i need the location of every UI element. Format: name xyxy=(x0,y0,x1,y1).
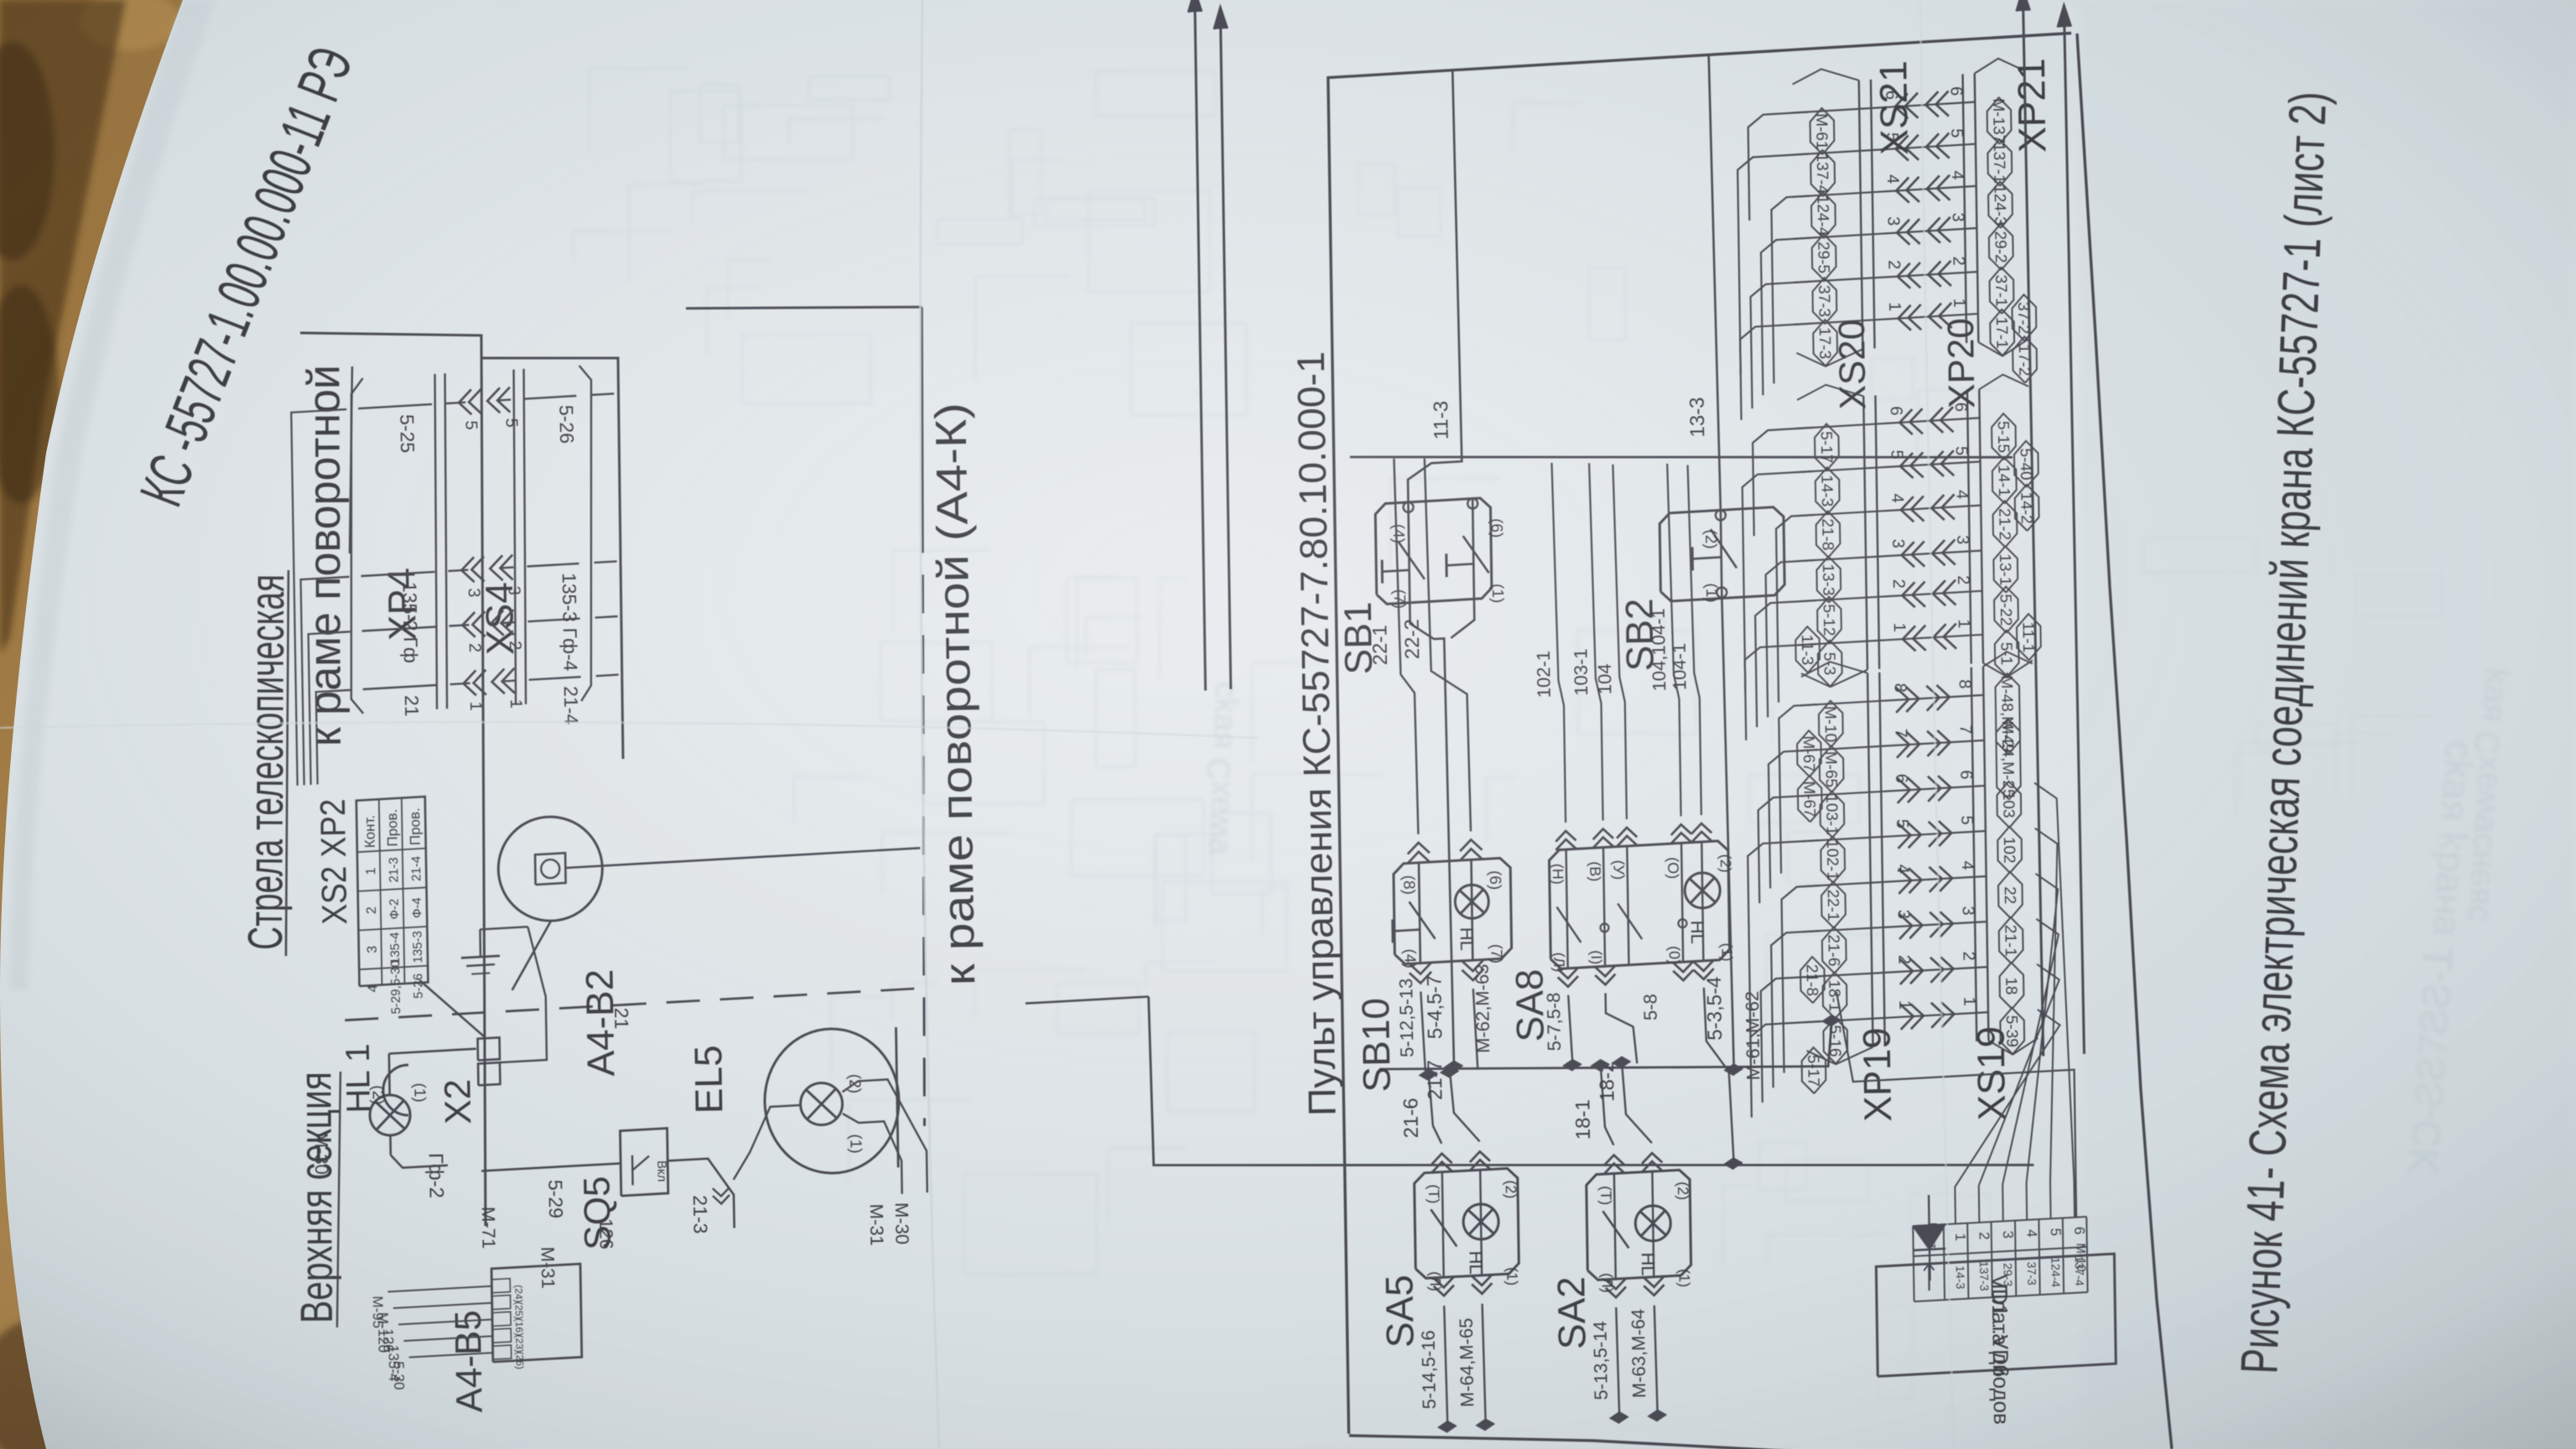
SB10 wires right labels 22-1 22-2 xyxy=(1394,459,1418,834)
underline of heading xyxy=(286,570,288,956)
pult box left edge xyxy=(1349,1436,2163,1449)
SB1 terminal circles xyxy=(1404,502,1414,512)
XS20/XP20 top labels pin 2 xyxy=(1817,597,1841,643)
toggle switch with lamp SA2 xyxy=(1587,1170,1691,1280)
SB10 chevrons left xyxy=(1410,972,1431,984)
wire 21-3 from EL5 up xyxy=(734,1105,801,1180)
XS21/XP21 pin 1 wire xyxy=(1794,314,1978,325)
ground symbol at X2 wire xyxy=(480,927,528,929)
SA8 lamp HL xyxy=(1701,842,1703,961)
XS20/XP20 shell ends xyxy=(1801,670,1867,688)
XP19/XS19 pin 6 chevrons xyxy=(1908,777,1920,802)
SA2 chevrons xyxy=(1604,1156,1624,1166)
SB2 wire left with label 5-3,5-4 xyxy=(1722,598,1733,1069)
A4-B2 center square xyxy=(535,853,566,885)
XS21/XP21 pin 5 wire xyxy=(1792,144,1976,155)
XS20/XP20 bottom labels pin 5 xyxy=(1992,457,2017,503)
XP19/XS19 top labels pin 5 xyxy=(1820,837,1845,883)
SA8 contact wire (У) xyxy=(1627,846,1628,965)
SA5 switch wire xyxy=(1442,1172,1444,1278)
bundle from XP4 to table xyxy=(316,691,328,784)
XS21/XP21 bottom labels pin 3 xyxy=(1989,224,2013,270)
push-button switch SB1 xyxy=(1375,498,1492,604)
XS4 rails xyxy=(514,370,517,705)
XP19/XS19 pin 8 wire xyxy=(1800,695,1984,705)
XS20/XP20 pin 1 chevrons xyxy=(1903,626,1916,651)
XS20/XP20 feeder wire pin 1 xyxy=(1745,644,1816,740)
XS20/XP20 feeder wire pin 5 xyxy=(1742,471,1814,692)
SB1 contact wire 1 xyxy=(1408,502,1410,603)
XP19/XS19 top labels pin 6 xyxy=(1820,792,1845,838)
lamp HL1 xyxy=(370,1095,410,1135)
SA5 lamp xyxy=(1463,1204,1498,1239)
underline of k rame xyxy=(350,366,352,553)
XP19/XS19 feeder wire pin 2 xyxy=(1761,976,1821,1103)
XP19/XS19 feeder wire pin 5 xyxy=(1748,840,1819,1061)
bus wire 2 (main vertical) xyxy=(1379,1021,1831,1069)
XS20/XP20 feeder wire pin 3 xyxy=(1766,560,1815,717)
SA8 right wire bundle labels 102-1 103-1 104 104,104-1 104-1 xyxy=(1552,463,1566,823)
XS21/XP21 pin 3 chevrons xyxy=(1897,220,1909,245)
SA8 switch blades xyxy=(1557,907,1581,943)
XP19/XS19 bottom labels pin 5 xyxy=(1997,827,2022,873)
XP19/XS19 pin 7 wire xyxy=(1800,740,1984,750)
XP19/XS19 feeder wire pin 4 xyxy=(1782,885,1820,1072)
XS21/XP21 bottom labels pin 2 xyxy=(1990,267,2014,314)
SA2 bottom wires to box edge xyxy=(1616,1307,1619,1420)
XS21/XP21 top labels pin 5 xyxy=(1810,150,1835,196)
XP19/XS19 pin 4 chevrons xyxy=(1909,868,1922,893)
wire down from XS4 xyxy=(596,675,619,677)
boundary dashed continuation xyxy=(922,514,924,1125)
XS20/XP20 bottom labels pin 2 xyxy=(1994,587,2018,633)
XS20/XP20 top labels pin 5 xyxy=(1815,468,1840,514)
wire SQ5 down xyxy=(667,1159,735,1228)
XS21/XP21 bottom labels pin 6 xyxy=(1987,97,2012,143)
SA8 left wires labels 5-7,5-8 / 5-8 / M-61,M-62 xyxy=(1568,995,1572,1066)
SA5 switch blade xyxy=(1431,1209,1457,1246)
A4-B5 wires up with labels xyxy=(409,1353,493,1357)
SB10 contact wire 1 xyxy=(1419,863,1420,963)
XS20/XP20 pin 3 chevrons xyxy=(1902,542,1914,567)
XS20/XP20 pin 4 wire xyxy=(1797,506,1981,517)
XP19/XS19 pin 5 wire xyxy=(1802,831,1986,841)
XS21/XP21 pin 6 chevrons xyxy=(1895,93,1908,118)
SB1 wire left with label 5-4,5-7 xyxy=(1410,603,1454,1067)
XS21/XP21 top labels pin 1 xyxy=(1813,319,1837,366)
SA5 lamp wire xyxy=(1480,1170,1482,1275)
wire up from XP4 xyxy=(323,409,346,411)
wire up from XP4 xyxy=(326,577,350,579)
arrow on wire 21-3 xyxy=(713,1195,730,1204)
XS21/XP21 pin 1 chevrons xyxy=(1898,305,1911,330)
XP4/XS4 pin 1 wires and chevrons xyxy=(363,685,437,689)
toggle switch with lamp SA5 xyxy=(1415,1168,1519,1278)
wire down from XS4 xyxy=(591,393,614,395)
dashed boundary Верхняя секция xyxy=(345,989,917,1021)
boundary to rotating frame A4-K vertical xyxy=(686,307,922,309)
XS20/XP20 bottom labels pin 6 xyxy=(1992,413,2016,460)
XS21/XP21 feeder wire pin 2 xyxy=(1751,282,1811,408)
junction SB1-bus2 xyxy=(1446,1062,1463,1072)
boundary to rotating frame A4-K horizontal solid xyxy=(921,307,924,514)
diode board table xyxy=(1913,1226,1914,1301)
connector group XS20/XP20 rails xyxy=(1863,396,1867,669)
SA5 chevrons xyxy=(1432,1154,1452,1165)
unit A4-B5 box xyxy=(491,1264,582,1362)
XS21/XP21 top labels pin 3 xyxy=(1812,234,1836,280)
XP19/XS19 pin 8 chevrons xyxy=(1906,687,1919,712)
XS20/XP20 pin 5 chevrons xyxy=(1900,453,1914,478)
ghost mirrored caption text from verso xyxy=(1199,667,2511,1176)
EL5 flat face line xyxy=(896,1027,899,1167)
XS20/XP20 top labels pin 6 xyxy=(1815,424,1839,470)
XP19/XS19 feeder wire pin 8 xyxy=(1779,704,1816,874)
wires from XS19 into diode table xyxy=(1955,1010,2059,1224)
XP19/XS19 bottom labels pin 1 xyxy=(2000,1008,2024,1054)
SA2 lamp xyxy=(1635,1206,1670,1241)
XP19/XS19 feeder wire pin 3 xyxy=(1771,931,1820,1088)
SA5 top wires to bus xyxy=(1429,1075,1441,1144)
wire table to X2 diagonal xyxy=(419,980,484,1036)
SA2 lamp wire xyxy=(1652,1171,1654,1277)
XP4/XS4 ladder shells xyxy=(351,378,363,714)
XS20/XP20 pin 6 wire xyxy=(1796,418,1980,428)
wire M-10 to diode table xyxy=(1836,992,2076,1218)
gap wires to rotating frame with arrows xyxy=(1195,0,1206,691)
XS21/XP21 top labels pin 4 xyxy=(1811,192,1836,238)
SA8 contact wire (В) xyxy=(1603,848,1605,967)
XP19/XS19 pin 3 wire xyxy=(1804,922,1987,932)
XS20/XP20 pin 6 chevrons xyxy=(1899,409,1912,434)
pult box bottom edge xyxy=(2077,34,2172,1449)
XP19/XS19 pin 1 wire xyxy=(1805,1012,1988,1022)
SA8 contact wire (О) xyxy=(1681,843,1683,962)
EL5 lamp xyxy=(801,1083,843,1125)
XP19/XS19 pin 2 chevrons xyxy=(1910,958,1923,984)
push-button with lamp SB10 xyxy=(1394,858,1512,963)
SB1 push button symbol xyxy=(1382,570,1409,572)
wire up from XP4 xyxy=(328,690,351,692)
bus wire 3 (from boom section) xyxy=(1149,997,2034,1166)
bus wire 1 (right vertical) xyxy=(1350,456,2012,459)
XP19/XS19 pin 3 chevrons xyxy=(1909,913,1923,938)
pult control box border xyxy=(1328,34,2071,1434)
XS21/XP21 bottom labels pin 4 xyxy=(1988,182,2012,228)
SB10 button symbol xyxy=(1393,930,1420,932)
XS20/XP20 bottom labels pin 4 xyxy=(1993,501,2018,547)
XP19/XS19 pin 1 chevrons xyxy=(1911,1004,1924,1029)
XS21/XP21 bottom labels pin 5 xyxy=(1987,140,2012,186)
XP19/XS19 feeder wire pin 7 xyxy=(1768,750,1818,888)
XS21/XP21 pin 4 chevrons xyxy=(1896,178,1909,203)
ghost bleed-through of reverse page xyxy=(574,69,2442,1399)
diode board VD1..VD6 outline xyxy=(1876,1254,2116,1376)
XS21/XP21 top labels pin 6 xyxy=(1810,108,1835,154)
XS21/XP21 top labels pin 2 xyxy=(1813,278,1837,324)
XS21/XP21 pin 2 chevrons xyxy=(1898,263,1911,288)
XP19/XS19 pin 5 chevrons xyxy=(1908,823,1920,848)
XS20/XP20 feeder wire pin 6 xyxy=(1753,428,1813,536)
connector group XS21/XP21 rails xyxy=(1859,80,1863,350)
junction SA8-bus3 xyxy=(1725,1158,1742,1169)
SB2 wire right with label 13-3 xyxy=(1709,55,1721,510)
XP19/XS19 bottom labels pin 8 xyxy=(1996,673,2020,754)
XP19/XS19 pin 6 wire xyxy=(1801,786,1985,796)
junction SB2-bus2 xyxy=(1725,1064,1742,1075)
wire up from XP4 xyxy=(327,631,351,633)
XS20/XP20 pin 2 wire xyxy=(1799,591,1982,602)
wire down from XS4 xyxy=(595,561,617,563)
HL1 reflector arc xyxy=(383,1065,408,1115)
XS20/XP20 feeder wire pin 4 xyxy=(1776,515,1814,703)
XS21/XP21 pin 4 wire xyxy=(1793,186,1976,197)
XP19/XS19 top labels pin 8 xyxy=(1819,701,1843,747)
XS21/XP21 pin 6 wire xyxy=(1791,102,1975,113)
XP19/XS19 bottom labels pin 4 xyxy=(1998,872,2023,918)
SB10 wires left labels 5-12,5-13 M-62,M-63 xyxy=(1420,992,1426,1072)
connector X2 squares xyxy=(478,1062,500,1085)
junction bus2 ladder xyxy=(1823,1015,1841,1026)
SB1 contact wire 2 xyxy=(1472,499,1474,600)
SB1 wire right with label 11-3 xyxy=(1408,70,1462,502)
SA5 bottom wires to box edge xyxy=(1444,1306,1447,1428)
XS21/XP21 bottom labels pin 1 xyxy=(1990,309,2014,356)
XP19/XS19 feeder wire pin 1 xyxy=(1751,1021,1822,1118)
XP19/XS19 pin 7 chevrons xyxy=(1907,732,1919,757)
push-button switch SB2 xyxy=(1659,507,1784,601)
SA2 switch blade xyxy=(1602,1211,1628,1248)
XS21/XP21 pin 5 chevrons xyxy=(1896,136,1909,161)
XP19/XS19 top labels pin 4 xyxy=(1821,882,1846,928)
A4-B5 terminal row xyxy=(493,1345,512,1359)
XP19/XS19 pin 2 wire xyxy=(1804,967,1987,977)
left section frame and divider xyxy=(300,333,486,1226)
XP4/XS4 pin 5 wires and chevrons xyxy=(358,404,432,408)
XS20/XP20 pin 2 chevrons xyxy=(1902,582,1914,607)
wire SQ5 up with label 5-29 xyxy=(481,1163,621,1171)
SA2 top wires to bus xyxy=(1601,1066,1614,1145)
SA8 contact wire (Н) xyxy=(1566,849,1568,969)
XS21/XP21 shell ends xyxy=(1796,349,1862,366)
XS21/XP21 feeder wire pin 6 xyxy=(1748,112,1809,221)
diode table arrow cell xyxy=(1928,1265,1930,1291)
XP19/XS19 shell ends xyxy=(1807,1047,1873,1064)
exit wire 2 to frame with arrow xyxy=(2064,6,2084,1054)
XS20/XP20 pin 4 chevrons xyxy=(1901,496,1914,522)
XS21/XP21 feeder wire pin 5 xyxy=(1737,154,1809,375)
wires HL1 xyxy=(388,1054,391,1096)
XP19/XS19 bottom labels pin 3 xyxy=(1999,917,2023,963)
XS21/XP21 pin 3 wire xyxy=(1793,228,1976,239)
XS20/XP20 top labels pin 1 xyxy=(1818,641,1842,687)
SB10 lamp HL xyxy=(1472,860,1473,960)
connector table XS2/XP2 xyxy=(356,797,428,986)
limit switch SQ5 box xyxy=(621,1129,668,1197)
SB2 contact wire xyxy=(1721,510,1722,598)
XS20/XP20 top labels pin 3 xyxy=(1817,557,1841,603)
SB10 chevrons right xyxy=(1408,843,1430,854)
XS21/XP21 pin 2 wire xyxy=(1794,272,1977,283)
XS20/XP20 pin 1 wire xyxy=(1800,635,1983,645)
underline Верхняя секция xyxy=(337,1072,340,1327)
switch unit SA8 xyxy=(1550,841,1730,969)
SB2 push button symbol xyxy=(1692,557,1721,558)
XS20/XP20 pin 3 wire xyxy=(1798,551,1981,562)
EL5 wires down xyxy=(843,1114,902,1194)
SA2 switch wire xyxy=(1614,1174,1616,1280)
XP19/XS19 top labels pin 7 xyxy=(1820,746,1844,792)
diode symbol VD xyxy=(1929,1195,1930,1280)
XS20/XP20 bottom labels pin 1 xyxy=(1995,631,2019,677)
XS20/XP20 feeder wire pin 2 xyxy=(1755,600,1815,727)
wire from A4-B2 down to boundary xyxy=(565,848,920,868)
paper crease lines xyxy=(921,0,940,1449)
XS21/XP21 feeder wire pin 3 xyxy=(1761,238,1810,396)
wire down from XS4 xyxy=(595,616,618,618)
connector group XP19/XS19 rails xyxy=(1867,673,1873,1047)
XP4/XS4 pin 2 wires and chevrons xyxy=(362,627,436,631)
XP19/XS19 top labels pin 2 xyxy=(1823,973,1847,1019)
wire from A4-B2 left xyxy=(512,921,552,990)
XS20/XP20 bottom labels pin 3 xyxy=(1993,547,2018,593)
XS20/XP20 top labels pin 4 xyxy=(1816,512,1841,558)
XP19/XS19 pin 4 wire xyxy=(1803,876,1987,886)
XP19/XS19 bottom labels pin 2 xyxy=(2000,963,2024,1009)
XP19/XS19 bottom labels pin 6 xyxy=(1997,782,2022,828)
XP4 rails xyxy=(435,374,438,709)
XP4/XS4 pin 3 wires and chevrons xyxy=(361,572,435,576)
divider bracket around XP4 ladder xyxy=(482,358,623,759)
SB2 terminal circles xyxy=(1716,587,1727,597)
XS21/XP21 feeder wire pin 1 xyxy=(1740,324,1811,420)
XP19/XS19 bottom labels pin 7 xyxy=(1996,719,2020,799)
exit wire 1 to frame with arrow xyxy=(2023,0,2044,1057)
XP19/XS19 top labels pin 1 xyxy=(1824,1018,1848,1064)
XS20/XP20 pin 5 wire xyxy=(1796,462,1980,473)
XP19/XS19 top labels pin 3 xyxy=(1822,927,1846,974)
headlight EL5 ellipse xyxy=(764,1028,901,1174)
XP19/XS19 feeder wire pin 6 xyxy=(1758,795,1819,903)
XS21/XP21 feeder wire pin 4 xyxy=(1772,196,1810,384)
cable drum A4-B2 circle xyxy=(498,817,602,921)
bus3 stub up to boom area xyxy=(1026,997,1149,1004)
wire X2 right to SQ5 region xyxy=(500,927,547,1062)
